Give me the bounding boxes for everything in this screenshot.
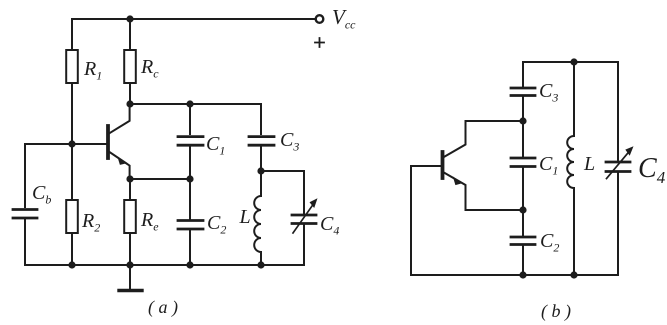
resistor R1 [66, 50, 78, 83]
wire top rail (b) [523, 61, 618, 63]
node collector junction (b) [519, 117, 526, 124]
node L bottom on rail (b) [570, 271, 577, 278]
svg-text:Cb: Cb [32, 182, 51, 207]
capacitor C2 [178, 221, 203, 230]
wire Re top [129, 179, 131, 200]
svg-text:( b ): ( b ) [541, 301, 571, 322]
resistor Re [124, 200, 136, 233]
svg-text:C3: C3 [280, 129, 299, 154]
wire R1 top [71, 19, 73, 50]
wire C3 top drop [260, 104, 262, 134]
wire R2 bottom to ground rail [71, 233, 73, 265]
wire C1 top [189, 104, 191, 134]
node emitter junction [126, 175, 133, 182]
svg-text:C3: C3 [539, 80, 558, 105]
wire C2b bottom to rail [522, 245, 524, 276]
node C2 bottom on rail (b) [519, 271, 526, 278]
inductor L (b) [567, 62, 574, 275]
node L bottom on ground rail [257, 261, 264, 268]
capacitor C3 [249, 137, 274, 146]
node emitter junction (b) [519, 206, 526, 213]
terminal Vcc (open circle) [316, 15, 324, 23]
node C1-C2 junction [186, 175, 193, 182]
svg-text:Vcc: Vcc [332, 5, 356, 32]
wire tank node to C4 column [261, 171, 304, 214]
node collector junction [126, 100, 133, 107]
wire C2b top [522, 210, 524, 235]
svg-text:C1: C1 [206, 133, 225, 158]
wire Rc top [129, 19, 131, 50]
wire C1 bottom [189, 145, 191, 179]
svg-text:C2: C2 [207, 212, 226, 237]
wire base horizontal from Cb corner to base bar [25, 143, 107, 145]
wire C1b bottom to emitter node [522, 167, 524, 211]
wire C3b to collector node [522, 96, 524, 122]
wire emitter to C1-C2 node (b) [466, 209, 524, 211]
svg-text:C1: C1 [539, 153, 558, 178]
wire C4 bottom [303, 224, 305, 266]
wire bottom ground rail (a) [25, 264, 304, 266]
node C1 top junction [186, 100, 193, 107]
svg-text:C4: C4 [320, 213, 339, 238]
svg-text:C4: C4 [638, 153, 666, 187]
capacitor C1 [178, 137, 203, 146]
capacitor C2 (b) [511, 237, 535, 245]
wire Cb bottom to ground rail [24, 218, 26, 265]
capacitor C4 (variable) [292, 198, 318, 233]
svg-text:Rc: Rc [140, 56, 159, 81]
wire C4b right column [617, 62, 619, 275]
wire Rc bottom to collector node [129, 83, 131, 104]
svg-text:R2: R2 [81, 210, 100, 235]
node junction Rc top on supply rail [126, 15, 133, 22]
resistor Rc [124, 50, 136, 83]
svg-text:L: L [239, 206, 251, 228]
node Re bottom on ground rail [126, 261, 133, 268]
wire emitter row to C1/C2 junction [130, 178, 190, 180]
node R2 bottom on ground rail [68, 261, 75, 268]
wire bottom rail (b) [411, 274, 618, 276]
capacitor C1 (b) [511, 158, 535, 167]
wire collector row to C3 [130, 103, 261, 105]
wire base node to R2 top [71, 144, 73, 200]
svg-text:R1: R1 [83, 58, 102, 83]
wire collector to C3-C1 node (b) [466, 120, 524, 122]
node C2 bottom on ground rail [186, 261, 193, 268]
wire Cb top (base node down to Cb) [24, 144, 26, 207]
wire base left column (b) [411, 166, 441, 275]
wire C1b top [522, 121, 524, 156]
capacitor C4 (b, variable) [606, 146, 634, 178]
transistor Q1 (b) [443, 121, 466, 210]
svg-text:Re: Re [140, 209, 159, 234]
node L top on rail (b) [570, 58, 577, 65]
ground [119, 265, 142, 291]
transistor Q1 [108, 104, 130, 179]
capacitor C3 (b) [511, 88, 535, 96]
svg-text:( a ): ( a ) [148, 297, 178, 318]
wire R1 bottom to base node [71, 83, 73, 144]
svg-text:L: L [583, 153, 595, 175]
label + polarity [315, 38, 324, 47]
node tank top junction [257, 167, 264, 174]
wire C3 bottom to tank node [260, 145, 262, 171]
svg-text:C2: C2 [540, 230, 559, 255]
inductor L [254, 171, 261, 265]
wire C2 top [189, 179, 191, 220]
resistor R2 [66, 200, 78, 233]
wire C2 bottom to ground rail [189, 229, 191, 265]
wire Re bottom to ground rail [129, 233, 131, 265]
node base divider junction [68, 140, 75, 147]
wire top supply rail (a) [72, 18, 315, 20]
capacitor Cb [13, 210, 37, 219]
wire C3b top drop [522, 62, 524, 86]
